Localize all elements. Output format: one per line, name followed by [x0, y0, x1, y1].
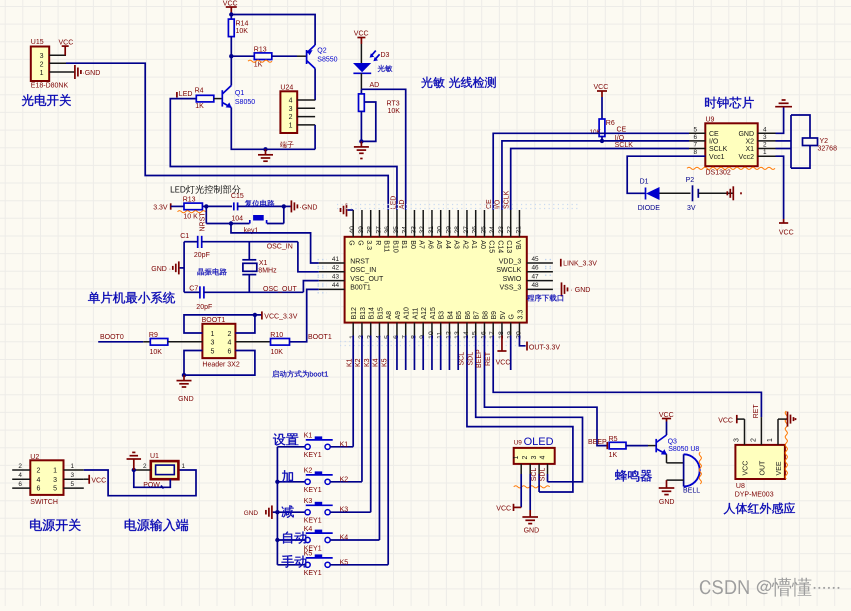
- svg-text:B15: B15: [377, 307, 384, 320]
- pin 6 bottom: [396, 323, 398, 336]
- svg-text:7: 7: [693, 142, 697, 149]
- svg-text:1: 1: [71, 463, 75, 470]
- switch key1: [205, 206, 207, 223]
- svg-text:OUT-3.3V: OUT-3.3V: [529, 344, 560, 351]
- svg-text:VCC: VCC: [91, 478, 106, 485]
- pin 4 bottom: [378, 323, 380, 336]
- label 程序下载口: [527, 295, 534, 301]
- svg-text:3: 3: [71, 472, 75, 479]
- svg-text:Vcc2: Vcc2: [738, 154, 754, 161]
- orange squiggle OLED: [514, 486, 550, 488]
- svg-text:Q3: Q3: [668, 439, 677, 446]
- pin 46 right SWCLK: [527, 271, 553, 273]
- stub MCU pin 10: [431, 336, 433, 371]
- svg-text:46: 46: [532, 265, 540, 272]
- svg-text:LED: LED: [179, 91, 193, 98]
- resistor R14 10K: [230, 15, 232, 20]
- svg-text:K1: K1: [340, 441, 349, 448]
- svg-text:35: 35: [393, 226, 400, 234]
- svg-text:SCL: SCL: [531, 468, 538, 482]
- svg-text:D3: D3: [381, 52, 390, 59]
- wire K3 to MCU: [330, 511, 371, 513]
- svg-text:3V: 3V: [687, 205, 696, 212]
- wire Q2 collector to U24 pin4: [314, 69, 316, 101]
- svg-text:X2: X2: [745, 139, 754, 146]
- svg-text:45: 45: [532, 256, 540, 263]
- svg-text:U2: U2: [30, 454, 39, 461]
- resistor R4 1K: [196, 95, 214, 102]
- svg-text:1: 1: [289, 122, 293, 129]
- svg-text:· GND: · GND: [571, 287, 591, 294]
- stub MCU pin 13: [457, 336, 459, 371]
- svg-text:5: 5: [693, 126, 697, 133]
- svg-text:C13: C13: [505, 240, 512, 253]
- wire OSC_IN to MCU pin42: [298, 242, 319, 272]
- svg-text:U9: U9: [706, 117, 715, 124]
- svg-text:A9: A9: [395, 311, 402, 320]
- svg-text:K5: K5: [340, 559, 349, 566]
- pin 38 top: [370, 210, 372, 237]
- svg-text:OSC_IN: OSC_IN: [350, 267, 376, 274]
- svg-text:29: 29: [445, 226, 452, 234]
- svg-text:33: 33: [410, 226, 417, 234]
- svg-text:VCC_3.3V: VCC_3.3V: [264, 313, 297, 320]
- switch K3 KEY1: [277, 511, 305, 513]
- svg-text:KEY1: KEY1: [304, 518, 322, 525]
- pin 47 right SWIO: [527, 280, 553, 282]
- label 人体红外感应: [724, 503, 735, 514]
- svg-text:38: 38: [367, 226, 374, 234]
- svg-text:VCC: VCC: [779, 230, 794, 237]
- svg-text:·GND: ·GND: [300, 204, 318, 211]
- pin 13 bottom: [457, 323, 459, 336]
- pin 35 top: [396, 210, 398, 237]
- pin 23 top: [501, 210, 503, 237]
- wire U15 pin2 to MCU pin36: [66, 63, 388, 210]
- svg-text:5: 5: [211, 348, 215, 355]
- wire OLED pin4 SDL: [547, 474, 549, 482]
- svg-text:BEEP: BEEP: [476, 349, 483, 368]
- power VCC DS1302 Vcc2: [776, 156, 784, 219]
- label 减: [282, 505, 294, 518]
- label 时钟芯片: [705, 97, 716, 109]
- svg-text:B3: B3: [439, 311, 446, 320]
- svg-text:B6: B6: [465, 311, 472, 320]
- svg-text:GND: GND: [659, 499, 675, 506]
- pin 30 top: [440, 210, 442, 237]
- ground header: [183, 375, 185, 381]
- ground MCU pin40: [348, 209, 354, 211]
- svg-text:10K: 10K: [236, 28, 249, 35]
- wire MCU pin15 SDL to OLED pin4: [476, 336, 583, 482]
- svg-text:U24: U24: [280, 85, 293, 92]
- switch K2 KEY1: [277, 481, 305, 483]
- svg-text:B10: B10: [391, 240, 398, 253]
- resistor RT3 10K: [360, 89, 362, 94]
- wire R10 to MCU pin44 BOOT1: [290, 289, 319, 341]
- svg-text:SCLK: SCLK: [503, 190, 510, 209]
- svg-text:C1: C1: [180, 233, 189, 240]
- svg-text:B0: B0: [409, 240, 416, 249]
- svg-text:A8: A8: [386, 311, 393, 320]
- svg-text:A6: A6: [426, 240, 433, 249]
- svg-text:R6: R6: [606, 120, 615, 127]
- ground RT3: [360, 141, 362, 147]
- svg-text:1: 1: [40, 70, 44, 77]
- svg-text:20pF: 20pF: [196, 304, 212, 311]
- wire LED net to MCU pin35: [170, 99, 397, 210]
- orange squiggle IR sensor: [785, 411, 787, 479]
- svg-text:LINK_3.3V: LINK_3.3V: [563, 260, 597, 267]
- pin 34 top: [405, 210, 407, 237]
- pin 25 top: [483, 210, 485, 237]
- svg-text:4: 4: [763, 126, 767, 133]
- svg-text:KEY1: KEY1: [304, 452, 322, 459]
- svg-text:42: 42: [332, 265, 340, 272]
- crystal Y2 32768: [776, 140, 792, 142]
- svg-text:3: 3: [763, 134, 767, 141]
- svg-text:OUT: OUT: [760, 460, 767, 476]
- svg-text:RET: RET: [753, 404, 760, 419]
- stub MCU pin19: [510, 336, 512, 371]
- wire Q1 collector: [230, 56, 232, 85]
- svg-text:2: 2: [143, 463, 147, 470]
- svg-text:A0: A0: [479, 240, 486, 249]
- stub MCU pin 11: [440, 336, 442, 371]
- label LED灯光控制部分: [171, 186, 175, 192]
- svg-text:1: 1: [182, 463, 186, 470]
- svg-text:R13: R13: [254, 47, 267, 54]
- svg-text:X1: X1: [259, 260, 268, 267]
- wire header pin5 to ground: [184, 351, 202, 376]
- ground U1: [134, 469, 151, 471]
- svg-text:30: 30: [437, 226, 444, 234]
- svg-text:36: 36: [384, 226, 391, 234]
- transistor Q2 S8550: [306, 50, 308, 64]
- svg-text:CE: CE: [709, 131, 719, 138]
- label 电源开关: [30, 519, 42, 531]
- pin 16 bottom: [483, 323, 485, 336]
- svg-text:8MHz: 8MHz: [258, 267, 277, 274]
- IC U8 DYP-ME003: [735, 445, 785, 479]
- pin 48 right VSS_3: [527, 288, 553, 290]
- svg-text:VCC: VCC: [659, 412, 674, 419]
- wire OSC_OUT to MCU pin43: [303, 281, 318, 293]
- wire MCU pin17 RET to IR sensor: [493, 336, 761, 418]
- svg-text:K3: K3: [340, 507, 349, 514]
- svg-text:GND: GND: [524, 528, 540, 535]
- svg-text:2: 2: [228, 331, 232, 338]
- svg-text:B00T1: B00T1: [350, 285, 371, 292]
- wire AD to MCU pin34: [361, 89, 405, 210]
- svg-text:R4: R4: [195, 88, 204, 95]
- svg-text:28: 28: [454, 226, 461, 234]
- svg-text:47: 47: [532, 273, 540, 280]
- dotted guide below MCU: [340, 341, 545, 343]
- svg-text:3: 3: [734, 438, 741, 442]
- svg-text:RET: RET: [485, 351, 492, 366]
- svg-text:OLED: OLED: [524, 436, 554, 448]
- svg-text:BOOT1: BOOT1: [308, 334, 332, 341]
- svg-text:4: 4: [289, 98, 293, 105]
- svg-text:G: G: [509, 314, 516, 319]
- svg-text:VCC: VCC: [354, 31, 369, 38]
- svg-text:DIODE: DIODE: [638, 205, 661, 212]
- pin 9 bottom: [422, 323, 424, 336]
- svg-text:5: 5: [53, 486, 57, 493]
- svg-text:BOOT0: BOOT0: [100, 334, 124, 341]
- svg-text:B4: B4: [447, 311, 454, 320]
- svg-text:GND ·: GND ·: [151, 266, 171, 273]
- svg-text:U1: U1: [150, 453, 159, 460]
- svg-text:3.3: 3.3: [517, 310, 524, 320]
- svg-text:31: 31: [428, 226, 435, 234]
- svg-text:P2: P2: [686, 177, 695, 184]
- label 复位电路: [245, 200, 252, 207]
- wire U1 pin2 loop: [134, 470, 171, 487]
- svg-text:VEE: VEE: [776, 461, 783, 475]
- pin 22 top: [510, 210, 512, 237]
- svg-text:10 K: 10 K: [183, 214, 198, 221]
- wire Vcc1 to battery: [627, 156, 705, 193]
- svg-text:R9: R9: [149, 332, 158, 339]
- svg-text:I/O: I/O: [709, 139, 719, 146]
- connector U15 E18-D80NK: [31, 47, 49, 82]
- svg-text:G: G: [348, 240, 355, 245]
- pin 40 top: [352, 210, 354, 237]
- svg-text:NRST: NRST: [350, 258, 370, 265]
- pin 14 bottom: [466, 323, 468, 336]
- svg-text:K4: K4: [304, 526, 313, 533]
- svg-text:K3: K3: [304, 498, 313, 505]
- ground keys: [273, 511, 278, 513]
- svg-text:OSC_IN: OSC_IN: [267, 243, 293, 250]
- buzzer BELL: [683, 454, 685, 486]
- svg-text:26: 26: [472, 226, 479, 234]
- svg-text:41: 41: [332, 256, 340, 263]
- wire OLED pin3 SCL: [538, 474, 540, 492]
- svg-text:U8: U8: [736, 483, 745, 490]
- wire U24 pin1 down: [314, 125, 316, 149]
- label 加: [282, 470, 293, 482]
- svg-text:3.3: 3.3: [365, 240, 372, 250]
- svg-text:32768: 32768: [818, 146, 838, 153]
- capacitor C15 104: [206, 205, 232, 207]
- switch K4 KEY1: [277, 539, 305, 541]
- pin 1 bottom: [352, 323, 354, 336]
- svg-text:SWITCH: SWITCH: [30, 499, 58, 506]
- pin 19 bottom: [510, 323, 512, 336]
- pin 15 bottom: [475, 323, 477, 336]
- pin 31 top: [431, 210, 433, 237]
- pin 28 top: [457, 210, 459, 237]
- resistor R6 10K: [599, 119, 605, 137]
- label 启动方式为boot1: [272, 370, 279, 377]
- svg-text:32: 32: [419, 226, 426, 234]
- power VCC Q3: [666, 422, 668, 436]
- svg-text:B5: B5: [456, 311, 463, 320]
- svg-text:5V: 5V: [500, 311, 507, 320]
- wire header pin2: [235, 315, 255, 333]
- svg-text:SDL: SDL: [467, 352, 474, 366]
- ground OLED pin2: [529, 474, 531, 510]
- svg-text:4: 4: [539, 456, 546, 460]
- wire crystal left bus: [183, 242, 185, 293]
- svg-text:B7: B7: [474, 311, 481, 320]
- power VCC MCU pin18: [501, 336, 503, 352]
- svg-text:A1: A1: [470, 240, 477, 249]
- wire VCC rail to Q2 emitter: [231, 15, 315, 46]
- power VCC OLED pin1: [520, 474, 522, 507]
- pin 32 top: [422, 210, 424, 237]
- label 自动: [283, 531, 292, 543]
- wire RT3 parallel loop: [361, 102, 375, 141]
- wire K4 to MCU: [330, 539, 379, 541]
- selection dots near MCU side pins: [318, 259, 328, 261]
- svg-text:B1: B1: [400, 240, 407, 249]
- resistor R13 1K: [231, 55, 254, 57]
- svg-text:BOOT1: BOOT1: [202, 317, 226, 324]
- svg-text:SCLK: SCLK: [615, 142, 634, 149]
- svg-text:SWCLK: SWCLK: [496, 267, 521, 274]
- ground MCU VSS_3: [561, 282, 563, 296]
- pin 29 top: [448, 210, 450, 237]
- ground DS1302 GND pin4: [776, 107, 784, 133]
- svg-text:VSS_3: VSS_3: [500, 285, 522, 292]
- svg-text:2: 2: [522, 456, 529, 460]
- svg-text:SCLK: SCLK: [709, 146, 728, 153]
- wire Q3 emitter to bell: [666, 454, 668, 463]
- svg-text:B11: B11: [383, 240, 390, 252]
- ground IR pin1: [777, 419, 779, 445]
- svg-text:10K: 10K: [388, 108, 401, 115]
- svg-text:VCC: VCC: [496, 506, 511, 513]
- svg-text:K4: K4: [340, 535, 349, 542]
- svg-text:VCC: VCC: [594, 84, 609, 91]
- pin 33 top: [413, 210, 415, 237]
- svg-text:43: 43: [332, 273, 340, 280]
- wire MCU pin14 SCL to OLED pin3: [467, 336, 573, 493]
- svg-text:27: 27: [463, 226, 470, 234]
- wire K5 to MCU: [330, 564, 388, 566]
- svg-text:C15: C15: [488, 240, 495, 253]
- svg-text:2: 2: [18, 463, 22, 470]
- svg-text:2: 2: [289, 114, 293, 121]
- wire BOOT0 to R9: [98, 341, 143, 343]
- svg-text:R14: R14: [236, 21, 249, 28]
- svg-text:25: 25: [480, 226, 487, 234]
- wire NRST to MCU pin41: [231, 224, 319, 264]
- ground reset: [284, 205, 291, 207]
- svg-text:U15: U15: [31, 39, 44, 46]
- svg-text:1: 1: [763, 149, 767, 156]
- ground U15 pin1: [74, 65, 76, 79]
- svg-text:·GND: ·GND: [82, 70, 100, 77]
- svg-text:DS1302: DS1302: [706, 170, 731, 177]
- svg-text:1: 1: [53, 468, 57, 475]
- svg-text:6: 6: [228, 348, 232, 355]
- svg-text:3: 3: [53, 477, 57, 484]
- pin 21 top: [518, 210, 520, 237]
- svg-text:6: 6: [693, 134, 697, 141]
- svg-text:VCC: VCC: [718, 417, 733, 424]
- net label OUT-3.3V MCU pin20: [519, 336, 525, 346]
- svg-text:A5: A5: [435, 240, 442, 249]
- pin 18 bottom: [501, 323, 503, 336]
- svg-text:10K: 10K: [271, 349, 284, 356]
- net label LED: [176, 92, 178, 98]
- crystal X1 8MHz: [248, 242, 250, 260]
- pin 10 bottom: [431, 323, 433, 336]
- svg-text:C14: C14: [496, 240, 503, 253]
- svg-text:8: 8: [693, 149, 697, 156]
- pin 24 top: [492, 210, 494, 237]
- svg-text:SCL: SCL: [459, 352, 466, 366]
- svg-text:20pF: 20pF: [194, 252, 210, 259]
- svg-text:10K: 10K: [150, 349, 163, 356]
- svg-text:Vcc1: Vcc1: [709, 154, 725, 161]
- svg-text:R10: R10: [270, 332, 283, 339]
- svg-text:6: 6: [18, 481, 22, 488]
- label 单片机最小系统: [88, 292, 100, 304]
- svg-text:5: 5: [71, 481, 75, 488]
- wire header pin6: [184, 351, 255, 376]
- svg-text:104: 104: [231, 216, 243, 223]
- battery P2 3V: [692, 185, 694, 201]
- svg-text:3: 3: [40, 53, 44, 60]
- label 晶振电路: [197, 268, 204, 275]
- svg-text:34: 34: [402, 226, 409, 234]
- svg-text:CE: CE: [617, 127, 627, 134]
- svg-text:C15: C15: [231, 193, 244, 200]
- svg-text:R13: R13: [183, 197, 196, 204]
- svg-text:2: 2: [37, 468, 41, 475]
- pin 20 bottom: [518, 323, 520, 336]
- net label LINK_3.3V: [560, 259, 562, 267]
- svg-text:2: 2: [750, 438, 757, 442]
- wire MCU pin16 BEEP to R5: [484, 336, 608, 446]
- svg-text:B14: B14: [369, 307, 376, 320]
- svg-text:BELL: BELL: [683, 488, 700, 495]
- svg-text:SDL: SDL: [540, 468, 547, 482]
- pin 44 left B00T1: [319, 288, 345, 290]
- svg-text:24: 24: [489, 226, 496, 234]
- svg-text:37: 37: [375, 226, 382, 234]
- svg-text:KEY1: KEY1: [304, 487, 322, 494]
- svg-text:NRST: NRST: [199, 212, 206, 232]
- svg-text:A2: A2: [461, 240, 468, 249]
- pin 8 bottom: [413, 323, 415, 336]
- svg-text:A10: A10: [404, 307, 411, 320]
- LED D3 光敏: [353, 63, 371, 72]
- svg-text:1: 1: [513, 456, 520, 460]
- pin 43 left VSC_OUT: [319, 280, 345, 282]
- svg-text:C7: C7: [189, 285, 198, 292]
- pin 5 bottom: [387, 323, 389, 336]
- pin 3 bottom: [370, 323, 372, 336]
- ground battery: [732, 186, 734, 200]
- svg-text:KEY1: KEY1: [304, 570, 322, 577]
- resistor R9 10K: [150, 339, 168, 346]
- svg-text:VB: VB: [514, 240, 521, 250]
- svg-text:K2: K2: [340, 476, 349, 483]
- svg-text:44: 44: [332, 282, 340, 289]
- svg-text:R: R: [374, 240, 381, 245]
- svg-text:S8050: S8050: [235, 99, 255, 106]
- svg-text:AD: AD: [370, 82, 380, 89]
- svg-text:B12: B12: [351, 307, 358, 320]
- svg-text:Q1: Q1: [235, 90, 244, 97]
